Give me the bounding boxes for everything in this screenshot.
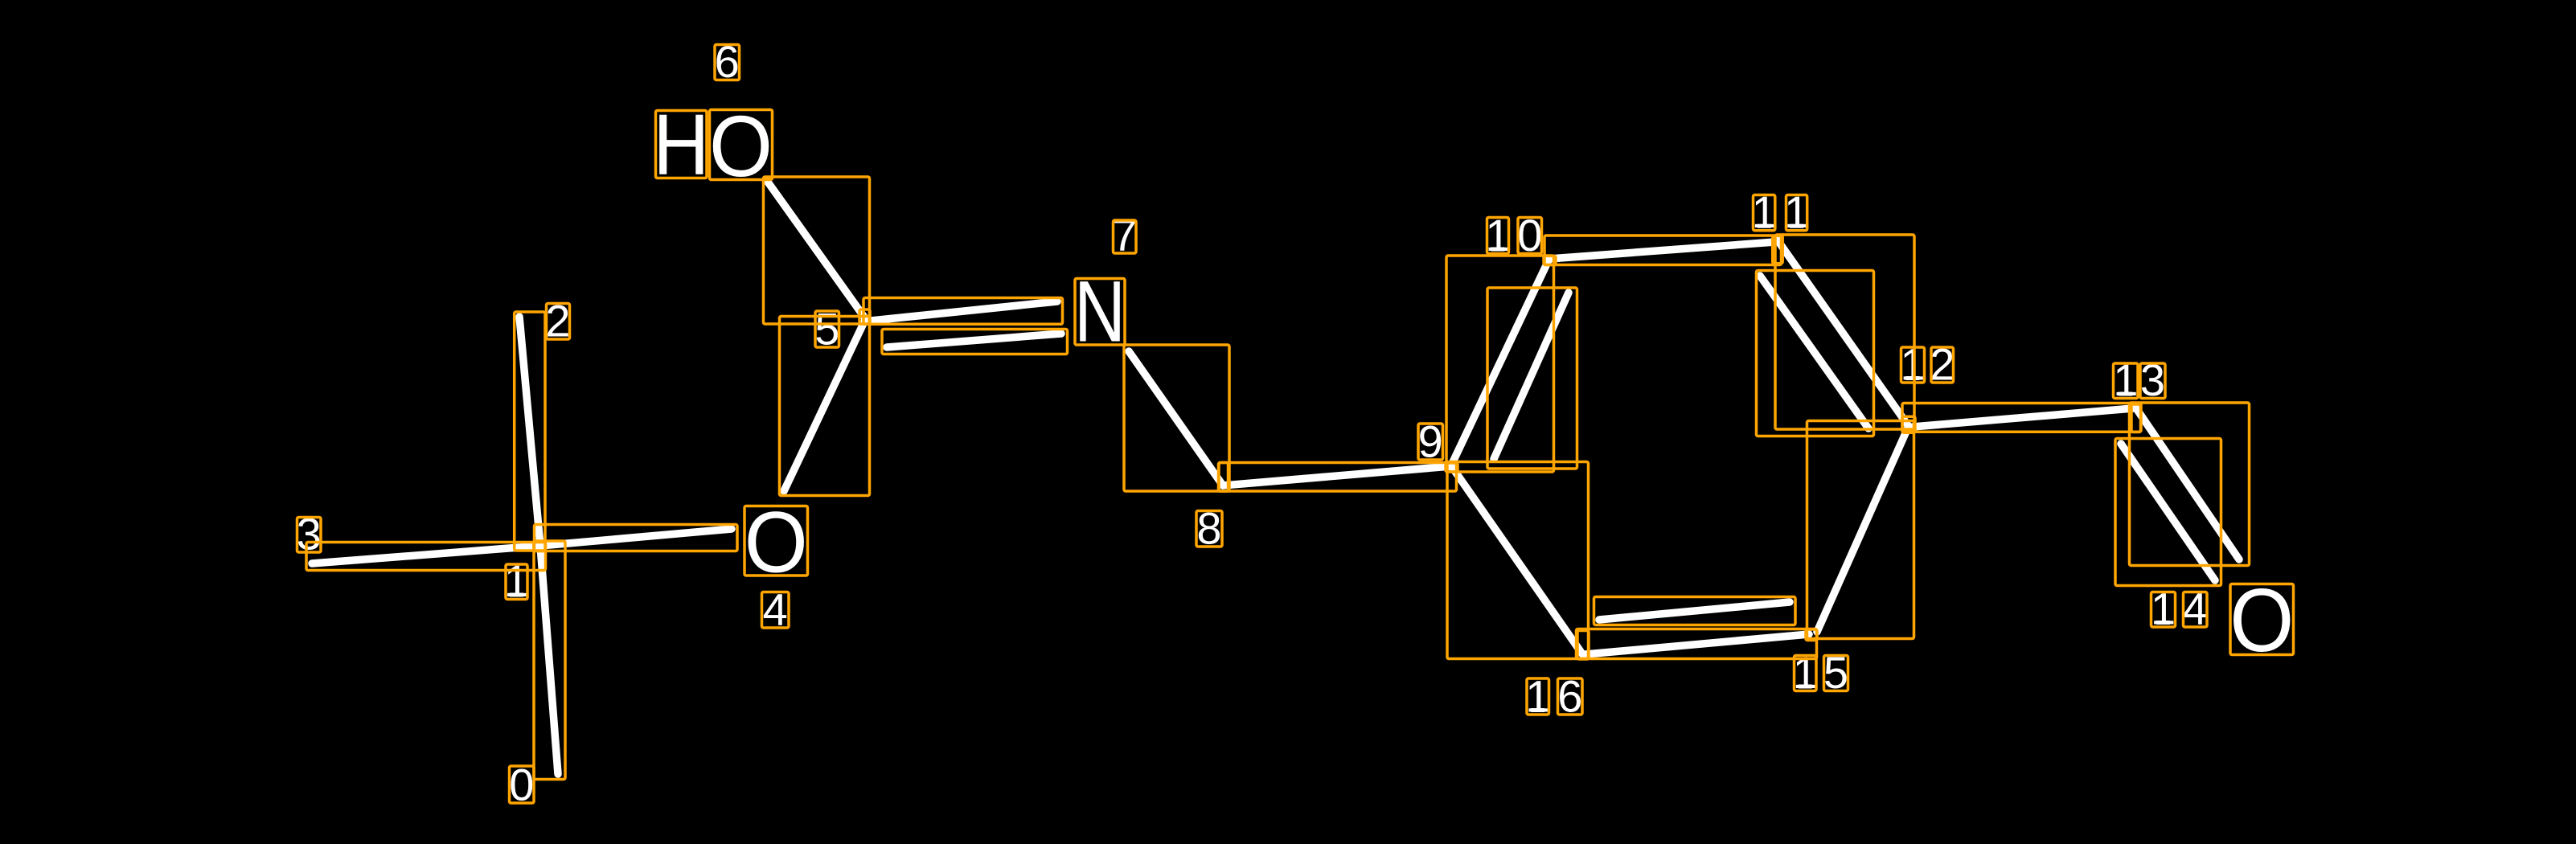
- atom 8 box: [1219, 463, 1229, 492]
- index label 0: [509, 760, 534, 810]
- index label 3 digit 1 box: [297, 518, 322, 553]
- index label 16: [1525, 671, 1582, 722]
- index label 11: [1752, 186, 1810, 237]
- index label 7 digit 1 box: [1114, 220, 1137, 253]
- bond 15-16 line 2: [1599, 602, 1790, 620]
- bond 7-8 box: [1124, 345, 1229, 491]
- index label 11 digit 1 box: [1754, 195, 1775, 231]
- index label 10 digit 1 box: [1487, 218, 1509, 254]
- bond 1-3 box: [306, 543, 546, 571]
- bond 7-8: [1129, 351, 1223, 486]
- bond 11-12 line 1: [1778, 240, 1908, 425]
- bond 12-15: [1817, 426, 1909, 632]
- index label 1 digit 1 box: [506, 564, 527, 600]
- atom 1 box: [534, 542, 545, 551]
- index label 10: [1485, 210, 1542, 260]
- bond 15-16 line 1 box: [1577, 629, 1817, 659]
- index label 14 digit 2 box: [2184, 592, 2208, 628]
- bond 5-6: [767, 181, 865, 318]
- bond 1-2: [519, 317, 540, 546]
- bond 4-5: [784, 320, 865, 491]
- index label 6: [715, 36, 740, 87]
- bond 8-9 box: [1219, 463, 1457, 492]
- bond 16-9 box: [1447, 462, 1589, 659]
- bond 15-16 line 1: [1585, 634, 1809, 654]
- bond 1-4: [540, 529, 732, 546]
- atom 5 box: [859, 309, 870, 324]
- atom 15 box: [1806, 629, 1817, 641]
- index label 14: [2151, 584, 2208, 634]
- bond 5-7 line 2 box: [882, 330, 1068, 354]
- index label 13 digit 1 box: [2114, 363, 2139, 399]
- index label 12 digit 1 box: [1901, 347, 1925, 383]
- index label 12: [1900, 339, 1955, 390]
- bond 16-9: [1452, 467, 1583, 655]
- bond 9-10 line 1 box: [1446, 256, 1554, 472]
- atom 14 oxygen glyph O box: [2230, 584, 2294, 655]
- index label 9: [1418, 416, 1443, 467]
- bond 10-11: [1549, 242, 1775, 259]
- bond 10-11 box: [1544, 236, 1782, 265]
- bond 9-10 line 1: [1451, 260, 1548, 465]
- bond 1-2 box: [515, 312, 545, 551]
- index label 13 digit 2 box: [2140, 363, 2165, 399]
- bond 9-10 line 2: [1494, 293, 1569, 459]
- index label 1: [504, 555, 529, 606]
- bond 5-6 box: [764, 177, 870, 324]
- index label 3: [297, 509, 322, 559]
- bond 5-7 line 2: [887, 334, 1061, 347]
- index label 5 digit 1 box: [815, 311, 839, 347]
- bond 11-12 line 2 box: [1757, 271, 1874, 436]
- atom 12 box: [1902, 416, 1915, 432]
- bond 0-1 box: [534, 541, 565, 780]
- index label 15 digit 2 box: [1824, 656, 1848, 691]
- index label 2 digit 1 box: [547, 304, 570, 340]
- index label 16 digit 2 box: [1558, 678, 1583, 715]
- bond 1-4 box: [535, 525, 738, 551]
- bond 11-12 line 2: [1760, 276, 1868, 428]
- bond 5-7 line 1 box: [863, 298, 1063, 325]
- index label 10 digit 2 box: [1518, 218, 1542, 254]
- bond 12-13: [1913, 408, 2133, 427]
- bond 13-14 line 1: [2136, 408, 2239, 559]
- index label 15 digit 1 box: [1795, 656, 1817, 691]
- bond 0-1: [540, 546, 558, 774]
- index label 4 digit 1 box: [762, 592, 790, 629]
- bond 5-7 line 1: [871, 301, 1057, 321]
- atom 6 hydrogen glyph H box: [656, 111, 708, 178]
- atom 7 nitrogen glyph N box: [1075, 279, 1125, 346]
- index label 6 digit 1 box: [715, 45, 740, 80]
- index label 14 digit 1 box: [2151, 592, 2176, 628]
- index label 12 digit 2 box: [1931, 347, 1954, 383]
- index label 2: [545, 296, 570, 346]
- index label 13: [2113, 354, 2165, 405]
- atom 16 box: [1577, 631, 1589, 660]
- atom 9 box: [1446, 463, 1458, 472]
- bond 13-14 line 2 box: [2115, 439, 2221, 586]
- bond 13-14 line 1 box: [2130, 403, 2250, 566]
- index label 9 digit 1 box: [1418, 424, 1443, 460]
- atom 13 box: [2131, 404, 2141, 432]
- index label 7: [1112, 210, 1137, 260]
- bond 8-9: [1223, 466, 1451, 486]
- atom 6 oxygen glyph O box: [710, 110, 773, 180]
- index label 4: [763, 584, 788, 635]
- atom 11 box: [1773, 236, 1783, 263]
- bond 1-3: [312, 546, 540, 563]
- index label 15: [1793, 647, 1848, 698]
- atom 10 box: [1544, 256, 1556, 264]
- bond 12-13 box: [1902, 404, 2141, 432]
- bond 4-5 box: [780, 317, 870, 496]
- index label 8: [1196, 503, 1221, 554]
- index label 16 digit 1 box: [1527, 678, 1549, 715]
- index label 5: [814, 304, 839, 354]
- bond 9-10 line 2 box: [1487, 288, 1577, 469]
- bond 11-12 line 1 box: [1775, 235, 1914, 429]
- index label 8 digit 1 box: [1196, 511, 1222, 547]
- atom 4 oxygen glyph O box: [744, 506, 808, 576]
- index label 0 digit 1 box: [510, 766, 535, 803]
- bond 13-14 line 2: [2121, 444, 2215, 580]
- bond 15-16 line 2 box: [1594, 597, 1796, 625]
- bond 12-15 box: [1807, 421, 1914, 639]
- index label 11 digit 2 box: [1786, 195, 1807, 231]
